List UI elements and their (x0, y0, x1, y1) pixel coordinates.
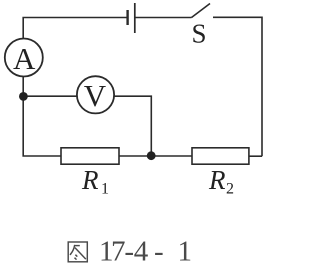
svg-text:4: 4 (134, 236, 149, 268)
svg-text:V: V (84, 78, 107, 113)
svg-text:A: A (13, 41, 36, 76)
svg-text:-: - (154, 236, 164, 268)
svg-text:1: 1 (178, 236, 193, 268)
svg-text:S: S (191, 18, 206, 48)
svg-text:R: R (208, 165, 226, 195)
svg-text:2: 2 (226, 181, 234, 198)
svg-text:1: 1 (101, 181, 109, 198)
svg-text:-: - (124, 236, 134, 268)
svg-text:R: R (81, 165, 99, 195)
svg-text:7: 7 (111, 236, 126, 268)
